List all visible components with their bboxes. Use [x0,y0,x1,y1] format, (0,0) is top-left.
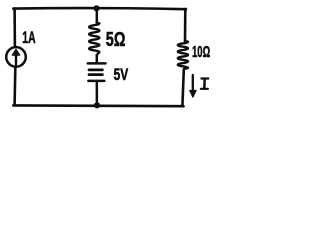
wire top [13,8,186,9]
wire bottom [13,104,183,107]
node A (top junction) [93,5,99,11]
resistor R1 5ohm [89,23,99,55]
current arrow I [190,75,197,97]
svg-text:5Ω: 5Ω [106,28,126,51]
label 5V [114,65,129,84]
wire right lower segment [182,70,183,106]
wire left lower segment [13,68,16,105]
svg-text:5V: 5V [114,65,129,84]
label 1A [22,29,35,47]
svg-text:1A: 1A [22,29,35,47]
wire lead resistor to battery [96,55,99,63]
label I [201,79,208,89]
current source I1 1A [6,47,26,67]
battery V1 plate long bottom [88,80,104,83]
svg-text:10Ω: 10Ω [192,44,210,61]
label 5 ohm [106,28,126,51]
wire left upper segment [13,9,16,47]
wire middle branch top lead [96,9,99,24]
battery V1 plate short mid2 [89,73,102,76]
label 10 ohm [192,44,210,61]
battery V1 5V plate long top [88,62,106,65]
node B (bottom junction) [94,102,100,108]
battery V1 plate short mid1 [89,69,102,72]
resistor R2 10ohm [178,41,188,69]
wire right upper segment [184,9,187,41]
wire middle branch bottom lead [96,81,99,106]
